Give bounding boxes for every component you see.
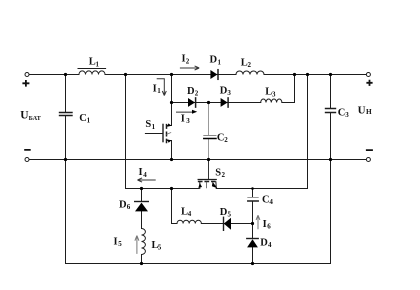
svg-text:2: 2 <box>224 136 228 144</box>
svg-text:S: S <box>145 119 151 130</box>
svg-text:S: S <box>215 167 221 178</box>
svg-text:2: 2 <box>195 90 199 98</box>
svg-text:I: I <box>139 167 143 178</box>
svg-text:4: 4 <box>268 241 272 249</box>
svg-text:1: 1 <box>87 117 91 125</box>
svg-text:6: 6 <box>267 223 271 231</box>
svg-text:БАТ: БАТ <box>29 115 42 122</box>
svg-text:I: I <box>153 83 157 94</box>
svg-text:I: I <box>114 236 118 247</box>
svg-text:3: 3 <box>272 90 276 98</box>
svg-text:4: 4 <box>269 198 273 206</box>
svg-text:1: 1 <box>157 87 161 95</box>
svg-text:1: 1 <box>96 60 100 68</box>
svg-text:I: I <box>181 113 185 124</box>
svg-text:D: D <box>210 55 218 66</box>
svg-text:2: 2 <box>222 171 226 179</box>
svg-text:I: I <box>263 219 267 230</box>
svg-text:U: U <box>358 104 366 116</box>
svg-text:5: 5 <box>158 244 162 252</box>
svg-text:3: 3 <box>186 117 190 125</box>
svg-text:6: 6 <box>127 203 131 211</box>
svg-text:1: 1 <box>152 123 156 131</box>
svg-text:3: 3 <box>345 111 349 119</box>
svg-text:4: 4 <box>143 171 147 179</box>
svg-text:Н: Н <box>366 107 372 116</box>
svg-text:5: 5 <box>228 211 232 219</box>
svg-text:3: 3 <box>227 89 231 97</box>
svg-text:2: 2 <box>248 61 252 69</box>
svg-text:4: 4 <box>188 210 192 218</box>
svg-text:2: 2 <box>186 57 190 65</box>
svg-text:5: 5 <box>118 240 122 248</box>
svg-text:1: 1 <box>218 58 222 66</box>
